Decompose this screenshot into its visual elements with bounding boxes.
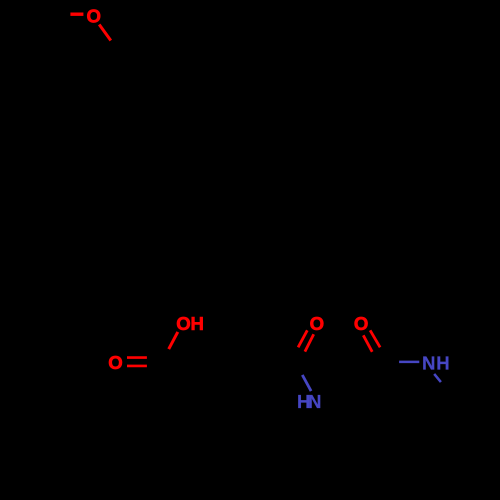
svg-text:O: O [354, 313, 368, 334]
svg-text:O: O [310, 313, 324, 334]
svg-text:O: O [176, 313, 190, 334]
svg-text:N: N [308, 391, 321, 412]
svg-text:O: O [86, 5, 100, 26]
svg-text:H: H [436, 353, 449, 374]
svg-text:H: H [190, 313, 203, 334]
svg-text:N: N [422, 353, 435, 374]
svg-text:O: O [108, 352, 122, 373]
